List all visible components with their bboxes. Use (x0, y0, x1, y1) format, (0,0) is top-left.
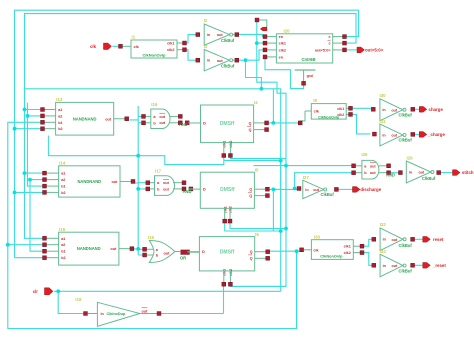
D flip-flop I4 (DMSff) (189, 100, 269, 157)
wire DMSff3 clk1 down (223, 284, 225, 313)
counter I20 (Cntr6B) (263, 29, 346, 64)
svg-text:ClkBuf: ClkBuf (399, 243, 413, 248)
svg-text:out: out (419, 171, 426, 175)
wire DMSff3 clk2 down to VM2 (230, 285, 286, 287)
input pin clr (33, 288, 53, 295)
svg-text:I9: I9 (313, 98, 317, 103)
wire left vertical x=6.5 with bottom loop (8, 122, 297, 328)
wire DMSff3 Q to I33 and bottom loop (269, 251, 302, 328)
output pin reset (423, 237, 444, 243)
D flip-flop I6 (DMSff) (187, 232, 269, 286)
clock splitter I33 (ClkNonOvlp) (300, 234, 364, 259)
svg-text:in: in (382, 133, 386, 137)
svg-text:I29: I29 (407, 156, 414, 161)
svg-text:Cntr6B: Cntr6B (302, 57, 316, 62)
svg-text:D: D (203, 187, 206, 192)
svg-text:AND: AND (179, 122, 188, 127)
AND gate I16 (142, 102, 190, 129)
svg-text:out: out (370, 164, 377, 168)
svg-text:Q: Q (249, 194, 252, 198)
svg-text:out: out (391, 108, 398, 112)
svg-text:ClkNonOvlp: ClkNonOvlp (320, 254, 343, 259)
wire NAND2 out to AND I17 inputs (134, 183, 146, 189)
NANDNAND gate I15 (43, 227, 134, 265)
buffer I34 (ClkBuf) (380, 249, 413, 277)
svg-text:clk2: clk2 (229, 269, 233, 276)
svg-text:I30: I30 (380, 93, 387, 98)
svg-text:a1: a1 (61, 172, 65, 176)
wire vertical DMSff1 Q to DMSff2 stage x=273.4 (272, 89, 274, 231)
svg-text:Q: Q (249, 188, 252, 192)
svg-text:clk2: clk2 (279, 49, 286, 53)
svg-text:ClkInvDup: ClkInvDup (107, 312, 126, 316)
svg-text:I27: I27 (303, 175, 310, 180)
svg-text:clk1: clk1 (337, 107, 344, 111)
pins of buffer I30 (371, 107, 414, 111)
svg-text:Q: Q (250, 250, 253, 254)
svg-text:out: out (110, 247, 117, 251)
wire buffer I3 out to Cntr6B clk2 and bus (239, 50, 265, 89)
wire I9 out2 to buffer I31 (353, 114, 371, 133)
svg-text:Q: Q (249, 128, 252, 132)
svg-text:in: in (101, 312, 105, 316)
pins of buffer I3 (196, 58, 239, 62)
svg-text:in: in (382, 108, 386, 112)
wire buffer I34 out to _reset pin (415, 264, 423, 266)
svg-text:out: out (313, 188, 320, 192)
svg-text:a2: a2 (58, 114, 62, 118)
svg-text:NANDNAND: NANDNAND (73, 116, 97, 121)
svg-text:in: in (383, 264, 387, 268)
pins of buffer I34 (372, 263, 415, 267)
buffer I30 (ClkBuf) (380, 93, 413, 121)
pins of buffer I32 (372, 237, 415, 241)
wire DMSff2 clk1 down to VM1 (225, 223, 281, 231)
svg-text:in: in (207, 33, 211, 37)
clock splitter I1 (ClkNonOvlp) (131, 35, 186, 59)
svg-text:I6: I6 (255, 232, 259, 237)
wire net cbar feedback (top inner loop) (25, 14, 357, 239)
svg-text:I4: I4 (254, 100, 258, 105)
svg-text:NANDNAND: NANDNAND (77, 179, 101, 184)
wire AND I17 out to DMSff2 D (188, 188, 193, 190)
svg-text:out: out (163, 187, 170, 191)
svg-text:I26: I26 (361, 152, 368, 157)
svg-text:I17: I17 (155, 169, 162, 174)
svg-text:b: b (364, 171, 367, 175)
svg-text:clk: clk (134, 45, 140, 49)
buffer I27 (ClkBuf) (303, 175, 335, 199)
output pin _charge (419, 132, 445, 138)
svg-text:b: b (153, 121, 156, 125)
wire DMSff1 Q to I9 clk (269, 122, 298, 124)
wire clk2 bus to AND I26 input a (254, 165, 352, 167)
svg-text:I33: I33 (314, 234, 321, 239)
svg-text:out: out (217, 59, 224, 63)
wire OR I19 out to DMSff3 D (187, 251, 189, 253)
svg-text:I3: I3 (204, 44, 208, 49)
wire buffer I31 out to _charge pin (415, 133, 420, 135)
svg-text:stitch: stitch (462, 170, 474, 175)
svg-text:ClkBuf: ClkBuf (221, 64, 235, 69)
svg-text:clk: clk (90, 44, 97, 49)
svg-text:ClkBuf: ClkBuf (399, 113, 413, 118)
svg-text:ClkBuf: ClkBuf (399, 269, 413, 274)
output pin discharge (353, 187, 382, 193)
svg-text:b1: b1 (58, 121, 62, 125)
svg-text:out: out (159, 121, 166, 125)
svg-text:b2: b2 (58, 127, 62, 131)
wire DMSff1 clk taps to left loop (48, 136, 223, 165)
wire NAND1 input stubs (15, 110, 42, 129)
wire AND I16 out to DMSff1 D (188, 122, 191, 124)
svg-text:I1: I1 (132, 35, 136, 40)
svg-text:ClkNonOvlp: ClkNonOvlp (143, 53, 166, 58)
D flip-flop I5 (DMSff) (188, 167, 269, 223)
svg-text:out: out (391, 134, 398, 138)
wire out<5:0> to output pin (347, 49, 357, 51)
svg-text:b1: b1 (61, 250, 65, 254)
svg-text:in: in (409, 170, 413, 174)
svg-text:b: b (156, 254, 159, 258)
wire vertical feed x=138.2 between stages (137, 106, 139, 255)
svg-text:I16: I16 (151, 102, 158, 107)
wire left vertical x=30 (30, 180, 43, 251)
svg-text:a1: a1 (61, 237, 65, 241)
svg-text:I15: I15 (59, 227, 66, 232)
svg-text:out<5:0>: out<5:0> (365, 47, 384, 52)
wire NAND3 out to OR I19 inputs (133, 249, 144, 255)
svg-text:DMSff: DMSff (220, 250, 235, 256)
svg-text:clk2: clk2 (167, 48, 174, 52)
wire DMSff2 Q to discharge buffer I27 (270, 188, 297, 190)
svg-text:out: out (392, 238, 399, 242)
svg-text:_charge: _charge (427, 132, 445, 137)
svg-text:a: a (153, 115, 156, 119)
wire clr input net (54, 291, 281, 313)
svg-text:Q: Q (249, 121, 252, 125)
svg-text:ClkBuf: ClkBuf (422, 176, 436, 181)
wire branch to AND I26 input b (295, 173, 352, 189)
svg-text:ClkBuf: ClkBuf (321, 192, 335, 197)
svg-text:AND: AND (386, 172, 395, 177)
NANDNAND gate I13 (41, 97, 129, 135)
svg-text:Q: Q (250, 257, 253, 261)
svg-text:a1: a1 (58, 108, 62, 112)
svg-text:discharge: discharge (360, 187, 381, 192)
AND gate I17 (146, 169, 193, 196)
svg-text:in: in (207, 59, 211, 63)
buffer I2 (ClkBuf) (204, 18, 235, 45)
svg-text:clk1: clk1 (167, 42, 174, 46)
output pin charge (419, 107, 443, 113)
svg-text:D: D (202, 249, 205, 254)
buffer I29 (ClkBuf) (406, 156, 436, 184)
svg-text:out: out (111, 180, 118, 184)
svg-text:out: out (164, 252, 171, 256)
svg-text:out: out (217, 33, 224, 37)
svg-text:clk2: clk2 (229, 206, 233, 213)
svg-text:out: out (392, 264, 399, 268)
svg-text:a: a (364, 164, 367, 168)
wire I33 out1 to buffer I32 (364, 239, 372, 246)
svg-text:out: out (370, 171, 377, 175)
wire AND I26 out to buffer I29 (391, 172, 399, 174)
svg-text:AND: AND (183, 189, 192, 194)
wire buffer I2 out to Cntr6B en/clk1 and tap (232, 22, 286, 287)
svg-text:ClkBuf: ClkBuf (399, 138, 413, 143)
buffer I31 (ClkBuf) (380, 119, 413, 146)
svg-text:ClkNonOvlp: ClkNonOvlp (318, 115, 340, 119)
svg-text:I34: I34 (380, 249, 387, 254)
svg-text:I14: I14 (59, 161, 66, 166)
wire I33 out2 to buffer I34 (364, 253, 372, 266)
svg-text:I5: I5 (255, 167, 259, 172)
svg-text:clk2: clk2 (344, 251, 351, 255)
svg-text:OR: OR (180, 255, 186, 260)
svg-text:out: out (105, 117, 112, 121)
net tap square and arrow at top (255, 18, 267, 31)
svg-text:in: in (305, 188, 309, 192)
wire DMSff1 clk2 to VM2 (230, 158, 286, 229)
svg-text:out: out (159, 115, 166, 119)
wire buffer I32 out to reset pin (415, 238, 423, 240)
svg-text:I20: I20 (284, 29, 291, 34)
svg-text:b: b (157, 187, 160, 191)
svg-text:a: a (157, 181, 160, 185)
wire left vertical x=27.5 (28, 103, 44, 186)
svg-text:clk: clk (314, 110, 320, 114)
svg-text:DMSff: DMSff (220, 187, 235, 193)
wire net c feedback (top outer loop) (15, 10, 359, 258)
svg-text:ClkBuf: ClkBuf (221, 38, 235, 43)
svg-text:out: out (163, 181, 170, 185)
wire I1 clk1 to buffer I2 (186, 35, 196, 43)
svg-text:c: c (328, 35, 330, 39)
svg-text:I32: I32 (380, 222, 387, 227)
NANDNAND gate I14 (43, 161, 135, 198)
wire buffer I27 out to discharge pin (338, 188, 352, 190)
wire NAND1 out to AND I16 inputs (130, 116, 142, 122)
output pin out<5:0> (357, 47, 384, 53)
wire NAND3 input stubs (8, 245, 43, 258)
ground rail symbol near Cntr6B (295, 70, 316, 85)
svg-text:en: en (279, 35, 284, 39)
svg-text:NANDNAND: NANDNAND (77, 246, 101, 251)
wire NAND2 input stubs (15, 173, 44, 192)
wire DMSff2 clk2 down to VM2 (230, 223, 286, 228)
svg-text:a: a (156, 248, 159, 252)
wire clk input to I1 (112, 45, 118, 47)
svg-text:clk1: clk1 (344, 245, 351, 249)
output pin stitch (453, 170, 474, 176)
svg-text:in: in (383, 238, 387, 242)
svg-text:I19: I19 (148, 235, 155, 240)
output pin _reset (423, 263, 447, 269)
AND gate I26 (352, 152, 395, 179)
svg-text:en: en (279, 56, 284, 60)
buffer I3 (ClkBuf) (204, 44, 235, 71)
svg-text:b2: b2 (61, 191, 65, 195)
wire DMSff1 clk1 to VM1 (224, 160, 281, 231)
svg-text:I18: I18 (75, 297, 82, 302)
wire horizontal bus y=88.8 to mid vertical VM1 (25, 89, 281, 291)
svg-text:reset: reset (433, 237, 444, 242)
wire net tap at top (259, 20, 267, 27)
wire inverter I18 out up to DMSff3 clk1 (161, 313, 224, 315)
wire I9 out1 to buffer I30 (353, 107, 372, 109)
svg-text:out<5:0>: out<5:0> (315, 49, 332, 53)
input pin clk (90, 43, 131, 49)
svg-text:charge: charge (429, 107, 444, 112)
wire I1 clk2 to buffer I3 (186, 50, 196, 61)
svg-text:I31: I31 (380, 119, 387, 124)
svg-text:out: out (142, 310, 149, 314)
svg-text:gnd: gnd (307, 74, 313, 78)
wire buffer I30 out to charge pin (415, 108, 420, 110)
buffer I32 (ClkBuf) (380, 222, 413, 250)
svg-text:clk: clk (313, 248, 319, 252)
svg-text:I2: I2 (204, 18, 208, 23)
svg-text:D: D (203, 120, 206, 125)
OR gate I19 (143, 235, 200, 262)
pins of buffer I2 (196, 33, 239, 37)
svg-text:clk1: clk1 (222, 269, 226, 276)
svg-text:clk1: clk1 (223, 206, 227, 213)
wire buffer I29 out to stitch pin (441, 172, 453, 174)
pins of buffer I27 (297, 187, 338, 192)
svg-text:b2: b2 (61, 256, 65, 260)
pins of buffer I31 (373, 132, 415, 136)
wire Cntr6B en2 to gnd rail (265, 59, 304, 89)
clock splitter I9 (ClkNonOvlp) (298, 98, 352, 125)
pins of buffer I29 (399, 171, 441, 175)
svg-text:clk1: clk1 (222, 141, 226, 148)
inverter I18 (ClkInvDup) (75, 297, 161, 327)
svg-text:b1: b1 (61, 185, 65, 189)
svg-text:DMSff: DMSff (220, 121, 235, 127)
svg-text:_reset: _reset (432, 263, 446, 268)
svg-text:clk2: clk2 (229, 141, 233, 148)
svg-text:a2: a2 (61, 178, 65, 182)
svg-text:clr: clr (33, 289, 39, 294)
svg-text:I13: I13 (56, 97, 63, 102)
svg-text:a2: a2 (61, 243, 65, 247)
svg-text:c: c (328, 42, 330, 46)
svg-text:clk1: clk1 (279, 42, 286, 46)
